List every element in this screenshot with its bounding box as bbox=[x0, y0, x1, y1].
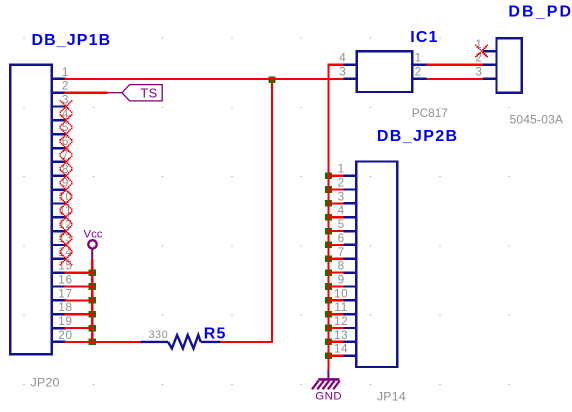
no-connect X on JP1B pin 4 bbox=[59, 114, 72, 127]
junction at JP2B pin 5 / GND rail bbox=[325, 228, 332, 235]
svg-text:5045-03A: 5045-03A bbox=[510, 112, 564, 126]
junction at JP2B pin 6 / GND rail bbox=[325, 242, 332, 249]
connector JP1B body (DB_JP1B) bbox=[10, 65, 52, 355]
svg-text:Vcc: Vcc bbox=[84, 229, 103, 241]
junction at JP2B pin 13 / GND rail bbox=[325, 339, 332, 346]
JP1B pin 4 stub and number bbox=[52, 107, 69, 120]
JP2B pin 6 stub and number bbox=[338, 232, 357, 245]
JP1B pin 5 stub and number bbox=[52, 121, 69, 134]
svg-text:3: 3 bbox=[339, 66, 346, 79]
IC1 pin 2 stub and number bbox=[412, 66, 426, 79]
svg-text:15: 15 bbox=[58, 260, 72, 273]
junction at JP2B pin 1 / GND rail bbox=[325, 172, 332, 179]
wire JP1B pin 19 to Vcc rail bbox=[65, 327, 93, 329]
JP2B pin 13 stub and number bbox=[334, 329, 356, 342]
connector DB_PD body bbox=[497, 38, 522, 93]
junction at JP2B pin 7 / GND rail bbox=[325, 255, 332, 262]
svg-text:14: 14 bbox=[334, 343, 348, 356]
no-connect X on JP1B pin 5 bbox=[59, 128, 72, 141]
JP2B pin 5 stub and number bbox=[338, 218, 357, 231]
JP2B pin 2 stub and number bbox=[338, 177, 357, 190]
wire JP2B pin 7 to rail bbox=[327, 258, 343, 260]
wire JP1B pin20 to resistor R5 bbox=[65, 341, 141, 343]
wire JP2B pin 12 to rail bbox=[327, 327, 343, 329]
JP1B pin 13 stub and number bbox=[52, 232, 73, 245]
svg-text:GND: GND bbox=[315, 391, 342, 403]
junction at JP2B pin 4 / GND rail bbox=[325, 214, 332, 221]
JP2B pin 4 stub and number bbox=[338, 204, 357, 217]
svg-text:13: 13 bbox=[334, 329, 348, 342]
svg-text:PC817: PC817 bbox=[412, 106, 448, 120]
svg-text:JP14: JP14 bbox=[377, 389, 406, 403]
JP2B pin 14 stub and number bbox=[334, 343, 356, 356]
svg-text:5: 5 bbox=[338, 218, 345, 231]
svg-text:1: 1 bbox=[338, 163, 345, 176]
svg-text:12: 12 bbox=[334, 315, 348, 328]
no-connect X on JP1B pin 12 bbox=[59, 225, 72, 238]
junction at JP2B pin 2 / GND rail bbox=[325, 186, 332, 193]
wire IC1 pin1 to DB_PD pin2 bbox=[426, 64, 483, 66]
no-connect X on JP1B pin 3 bbox=[59, 100, 72, 113]
no-connect X on JP1B pin 9 bbox=[59, 183, 72, 196]
svg-text:18: 18 bbox=[58, 301, 72, 314]
junction at JP2B pin 14 / GND rail bbox=[325, 352, 332, 359]
svg-text:DB_PD: DB_PD bbox=[508, 3, 572, 20]
svg-text:2: 2 bbox=[415, 66, 422, 79]
junction at JP2B pin 11 / GND rail bbox=[325, 311, 332, 318]
JP1B pin 15 stub and number bbox=[52, 260, 73, 273]
wire JP2B pin 5 to rail bbox=[327, 230, 343, 232]
wire JP2B pin 8 to rail bbox=[327, 272, 343, 274]
wire vertical riser to pin1 net bbox=[271, 79, 273, 343]
svg-text:DB_JP2B: DB_JP2B bbox=[377, 128, 458, 145]
JP1B pin 19 stub and number bbox=[52, 315, 73, 328]
wire Vcc rail vertical bbox=[91, 259, 93, 342]
svg-text:IC1: IC1 bbox=[410, 29, 438, 46]
junction at JP2B pin 12 / GND rail bbox=[325, 325, 332, 332]
svg-text:JP20: JP20 bbox=[31, 376, 60, 390]
JP1B pin 11 stub and number bbox=[52, 204, 72, 217]
JP1B pin 16 stub and number bbox=[52, 274, 73, 287]
svg-text:16: 16 bbox=[58, 274, 72, 287]
svg-text:TS: TS bbox=[140, 86, 157, 101]
junction at JP1B pin 15 / Vcc rail bbox=[89, 269, 96, 276]
svg-text:19: 19 bbox=[58, 315, 72, 328]
JP1B pin 3 stub and number bbox=[52, 94, 69, 107]
svg-text:10: 10 bbox=[334, 287, 348, 300]
no-connect X on JP1B pin 6 bbox=[59, 142, 72, 155]
IC1 pin 1 stub and number bbox=[412, 52, 426, 65]
wire JP2B pin 3 to rail bbox=[327, 202, 343, 204]
svg-text:1: 1 bbox=[62, 66, 69, 79]
svg-text:4: 4 bbox=[338, 204, 345, 217]
junction at JP1B pin 17 / Vcc rail bbox=[89, 297, 96, 304]
JP1B pin 6 stub and number bbox=[52, 135, 69, 148]
no-connect X on JP1B pin 13 bbox=[59, 238, 72, 251]
JP1B pin 18 stub and number bbox=[52, 301, 73, 314]
svg-text:2: 2 bbox=[338, 177, 345, 190]
svg-text:R5: R5 bbox=[204, 325, 227, 342]
IC1 pin 4 stub and number bbox=[339, 52, 356, 65]
op-amp/optocoupler IC1 body bbox=[357, 51, 413, 92]
wire JP2B pin 6 to rail bbox=[327, 244, 343, 246]
junction at JP1B pin 18 / Vcc rail bbox=[89, 311, 96, 318]
svg-text:4: 4 bbox=[339, 52, 346, 65]
svg-text:DB_JP1B: DB_JP1B bbox=[32, 32, 112, 49]
junction at JP1B pin 16 / Vcc rail bbox=[89, 283, 96, 290]
svg-text:7: 7 bbox=[338, 246, 345, 259]
IC1 pin 3 stub and number bbox=[339, 66, 356, 79]
svg-text:17: 17 bbox=[58, 287, 72, 300]
wire IC1 pin2 to DB_PD pin3 bbox=[426, 78, 483, 80]
junction at JP1B pin 19 / Vcc rail bbox=[89, 325, 96, 332]
JP2B pin 3 stub and number bbox=[338, 190, 357, 203]
svg-text:3: 3 bbox=[338, 190, 345, 203]
JP1B pin 20 stub and number bbox=[52, 329, 73, 342]
JP1B pin 2 stub and number bbox=[52, 80, 69, 93]
wire JP2B pin 10 to rail bbox=[327, 299, 343, 301]
DB_PD pin 3 stub and number bbox=[475, 66, 496, 79]
wire JP2B pin 4 to rail bbox=[327, 216, 343, 218]
JP2B pin 9 stub and number bbox=[338, 274, 357, 287]
wire R5 to vertical riser bbox=[221, 341, 272, 343]
wire JP1B pin 15 to Vcc rail bbox=[65, 272, 93, 274]
JP1B pin 12 stub and number bbox=[52, 218, 73, 231]
svg-text:330: 330 bbox=[149, 329, 169, 341]
no-connect X on JP1B pin 10 bbox=[59, 197, 72, 210]
svg-text:2: 2 bbox=[62, 80, 69, 93]
JP1B pin 9 stub and number bbox=[52, 177, 69, 190]
svg-text:6: 6 bbox=[338, 232, 345, 245]
junction at JP2B pin 9 / GND rail bbox=[325, 283, 332, 290]
wire JP2B pin 2 to rail bbox=[327, 188, 343, 190]
wire JP2B pin 9 to rail bbox=[327, 285, 343, 287]
DB_PD pin 2 stub and number bbox=[475, 52, 496, 65]
JP1B pin 1 stub and number bbox=[52, 66, 69, 79]
JP2B pin 11 stub and number bbox=[334, 301, 356, 314]
JP2B pin 8 stub and number bbox=[338, 260, 357, 273]
junction at JP2B pin 3 / GND rail bbox=[325, 200, 332, 207]
junction at JP1B pin 20 / Vcc rail bbox=[89, 339, 96, 346]
JP1B pin 10 stub and number bbox=[52, 191, 73, 204]
JP1B pin 8 stub and number bbox=[52, 163, 69, 176]
ground symbol GND bbox=[312, 370, 342, 403]
net label TS bbox=[107, 85, 162, 101]
svg-text:3: 3 bbox=[475, 66, 482, 79]
junction at JP2B pin 8 / GND rail bbox=[325, 269, 332, 276]
JP1B pin 17 stub and number bbox=[52, 287, 73, 300]
DB_PD pin 1 stub and number bbox=[475, 38, 496, 51]
connector JP2B body (DB_JP2B) bbox=[356, 162, 397, 368]
no-connect X on JP1B pin 8 bbox=[59, 169, 72, 182]
svg-text:1: 1 bbox=[415, 52, 422, 65]
JP2B pin 1 stub and number bbox=[338, 163, 357, 176]
JP2B pin 10 stub and number bbox=[334, 287, 356, 300]
power symbol Vcc bbox=[84, 229, 103, 259]
wire JP1B pin1 to IC1 pin3 bbox=[65, 78, 344, 80]
svg-text:11: 11 bbox=[334, 301, 348, 314]
resistor R5 bbox=[141, 335, 221, 349]
wire JP1B pin2 to TS label bbox=[65, 92, 108, 94]
JP1B pin 14 stub and number bbox=[52, 246, 73, 259]
wire JP1B pin 18 to Vcc rail bbox=[65, 313, 93, 315]
no-connect X on JP1B pin 7 bbox=[59, 155, 72, 168]
wire JP2B pin 1 to rail bbox=[327, 175, 343, 177]
JP1B pin 7 stub and number bbox=[52, 149, 69, 162]
JP2B pin 12 stub and number bbox=[334, 315, 356, 328]
no-connect X on DB_PD pin 1 bbox=[475, 45, 488, 58]
svg-text:9: 9 bbox=[338, 274, 345, 287]
no-connect X on JP1B pin 11 bbox=[59, 211, 72, 224]
wire JP2B pin 11 to rail bbox=[327, 313, 343, 315]
no-connect X on JP1B pin 14 bbox=[59, 252, 72, 265]
junction at JP2B pin 10 / GND rail bbox=[325, 297, 332, 304]
JP2B pin 7 stub and number bbox=[338, 246, 357, 259]
wire JP1B pin 16 to Vcc rail bbox=[65, 285, 93, 287]
wire JP1B pin 17 to Vcc rail bbox=[65, 299, 93, 301]
wire JP2B pin 14 to rail bbox=[327, 355, 343, 357]
wire JP2B pin 13 to rail bbox=[327, 341, 343, 343]
wire IC1 pin4 to GND rail corner bbox=[328, 65, 343, 370]
svg-text:8: 8 bbox=[338, 260, 345, 273]
junction node at pin1 wire and vertical wire bbox=[268, 76, 275, 83]
svg-text:20: 20 bbox=[58, 329, 72, 342]
